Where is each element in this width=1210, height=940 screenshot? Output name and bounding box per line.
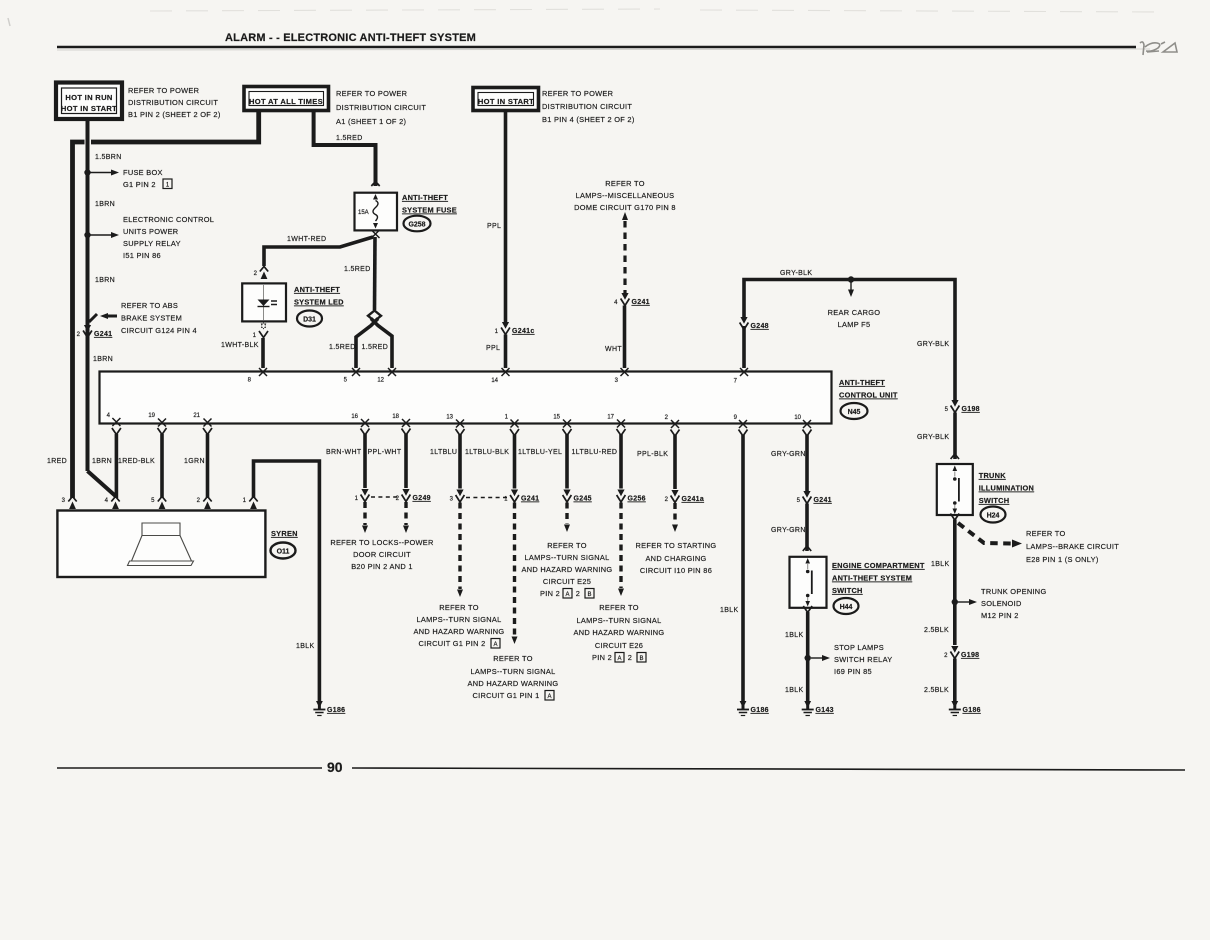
connector 2 G241a bbox=[665, 490, 704, 503]
wire 1BLK below engine switch bbox=[806, 612, 810, 701]
svg-text:WHT: WHT bbox=[605, 346, 622, 353]
svg-text:AND HAZARD WARNING: AND HAZARD WARNING bbox=[414, 627, 505, 636]
engine switch label bbox=[832, 561, 925, 614]
svg-text:G256: G256 bbox=[628, 496, 646, 503]
svg-text:HOT IN START: HOT IN START bbox=[61, 104, 117, 113]
refer to power distribution text 3 bbox=[542, 89, 635, 124]
wire 1BRN from box B1 down bbox=[86, 119, 90, 471]
trunk illumination switch H24 bbox=[937, 464, 973, 515]
wire BRN-WHT pin16 bbox=[363, 434, 367, 488]
svg-text:15: 15 bbox=[553, 415, 560, 421]
fuse box G1 pin2 text bbox=[123, 168, 172, 189]
svg-text:A1 (SHEET 1 OF 2): A1 (SHEET 1 OF 2) bbox=[336, 117, 406, 126]
anti-theft system LED D31 bbox=[242, 283, 286, 321]
svg-text:A: A bbox=[565, 592, 569, 598]
speaker symbol bbox=[128, 523, 194, 566]
svg-text:GRY-BLK: GRY-BLK bbox=[780, 270, 812, 277]
svg-text:17: 17 bbox=[607, 415, 614, 421]
electronic control units relay text bbox=[123, 215, 214, 260]
junction dot rear cargo tap bbox=[848, 276, 854, 297]
wire 2.5BLK to ground bbox=[953, 659, 957, 702]
connector 4 G241 on WHT bbox=[614, 293, 650, 306]
header rule bbox=[57, 46, 1136, 49]
svg-text:B: B bbox=[587, 592, 591, 598]
svg-text:M12 PIN 2: M12 PIN 2 bbox=[981, 611, 1019, 620]
svg-text:SYREN: SYREN bbox=[271, 529, 298, 538]
svg-text:STOP LAMPS: STOP LAMPS bbox=[834, 643, 884, 652]
control unit label bbox=[839, 378, 898, 419]
svg-text:REFER TO: REFER TO bbox=[599, 603, 639, 612]
svg-text:CIRCUIT E26: CIRCUIT E26 bbox=[595, 641, 643, 650]
svg-text:REFER TO STARTING: REFER TO STARTING bbox=[636, 541, 717, 550]
svg-text:G186: G186 bbox=[751, 707, 769, 714]
svg-text:1BRN: 1BRN bbox=[92, 458, 112, 465]
wire 1LTBLU-BLK pin1 bbox=[513, 435, 517, 489]
refer to turn signal E26 text bbox=[574, 603, 665, 662]
syren pin plugs bbox=[68, 497, 257, 510]
svg-text:REFER TO: REFER TO bbox=[493, 654, 533, 663]
dashed drop 1LTBLU-YEL with arrow bbox=[564, 503, 570, 533]
dashed drop 1LTBLU-RED with arrow bbox=[618, 503, 624, 597]
svg-text:SWITCH RELAY: SWITCH RELAY bbox=[834, 655, 893, 664]
bottom pin marks bbox=[112, 418, 811, 428]
connector G248 bbox=[740, 317, 769, 330]
svg-text:LAMPS--TURN SIGNAL: LAMPS--TURN SIGNAL bbox=[470, 667, 555, 676]
svg-text:REFER TO LOCKS--POWER: REFER TO LOCKS--POWER bbox=[330, 538, 433, 547]
engine switch top plug bbox=[803, 546, 811, 551]
anti-theft control unit N45 bbox=[100, 372, 832, 424]
svg-text:AND HAZARD WARNING: AND HAZARD WARNING bbox=[522, 565, 613, 574]
svg-text:G249: G249 bbox=[413, 495, 431, 502]
svg-text:DISTRIBUTION CIRCUIT: DISTRIBUTION CIRCUIT bbox=[128, 98, 218, 107]
svg-text:G241: G241 bbox=[814, 497, 832, 504]
junction dot trunk solenoid tap bbox=[952, 599, 977, 605]
svg-text:1RED-BLK: 1RED-BLK bbox=[118, 458, 155, 465]
svg-text:GRY-GRN: GRY-GRN bbox=[771, 451, 806, 458]
svg-text:1RED: 1RED bbox=[47, 458, 67, 465]
svg-text:BRAKE SYSTEM: BRAKE SYSTEM bbox=[121, 314, 182, 323]
connector 2 G249 bbox=[396, 489, 431, 502]
svg-text:G198: G198 bbox=[962, 406, 980, 413]
logo scribble top right bbox=[1140, 42, 1177, 55]
wire 1BLK below trunk switch bbox=[953, 520, 957, 646]
svg-text:1.5RED: 1.5RED bbox=[336, 135, 363, 142]
wire pin4 to syren bbox=[115, 434, 119, 498]
refer to ABS dashed tap bbox=[89, 313, 117, 322]
svg-text:LAMPS--TURN SIGNAL: LAMPS--TURN SIGNAL bbox=[576, 616, 661, 625]
svg-text:B20 PIN 2 AND 1: B20 PIN 2 AND 1 bbox=[351, 562, 413, 571]
dashed drop PPL-WHT with arrow bbox=[403, 502, 409, 533]
fuse top plug bbox=[371, 182, 379, 187]
svg-text:O11: O11 bbox=[277, 549, 290, 556]
svg-text:1.5RED: 1.5RED bbox=[329, 344, 356, 351]
svg-text:1BLK: 1BLK bbox=[785, 632, 804, 639]
svg-text:1BLK: 1BLK bbox=[720, 607, 739, 614]
svg-text:CIRCUIT E25: CIRCUIT E25 bbox=[543, 577, 591, 586]
svg-text:LAMPS--BRAKE CIRCUIT: LAMPS--BRAKE CIRCUIT bbox=[1026, 542, 1119, 551]
svg-text:GRY-BLK: GRY-BLK bbox=[917, 341, 949, 348]
LED pin 2 plug bbox=[254, 267, 269, 280]
refer to ABS text bbox=[121, 301, 197, 335]
svg-text:15A: 15A bbox=[358, 210, 369, 216]
wire PPL to pin 14 bbox=[504, 335, 508, 369]
connector 3 (pin13) bbox=[450, 490, 465, 503]
svg-text:1.5RED: 1.5RED bbox=[344, 266, 371, 273]
svg-text:AND HAZARD WARNING: AND HAZARD WARNING bbox=[468, 679, 559, 688]
hot-in-run/start power box B1 bbox=[56, 83, 122, 120]
svg-text:HOT IN RUN: HOT IN RUN bbox=[65, 93, 112, 102]
wire 1LTBLU-RED pin17 bbox=[619, 435, 623, 489]
rear cargo lamp text bbox=[828, 308, 881, 329]
svg-text:UNITS POWER: UNITS POWER bbox=[123, 227, 178, 236]
ground G186 trunk bbox=[949, 701, 981, 716]
wire PPL-BLK pin2 bbox=[673, 435, 677, 489]
svg-text:HOT AT ALL TIMES: HOT AT ALL TIMES bbox=[249, 97, 323, 106]
wire GRY-GRN pin10 bbox=[805, 435, 809, 491]
svg-text:PPL: PPL bbox=[487, 223, 501, 230]
refer to power distribution text 2 bbox=[336, 89, 426, 126]
svg-text:DOME CIRCUIT G170 PIN 8: DOME CIRCUIT G170 PIN 8 bbox=[574, 203, 676, 212]
svg-text:AND CHARGING: AND CHARGING bbox=[645, 554, 706, 563]
svg-text:1GRN: 1GRN bbox=[184, 458, 205, 465]
dashed brake circuit tap bbox=[958, 523, 1022, 548]
svg-text:REAR CARGO: REAR CARGO bbox=[828, 308, 881, 317]
dashed wire to dome circuit with up arrow bbox=[622, 212, 628, 293]
svg-text:REFER TO: REFER TO bbox=[439, 603, 479, 612]
bottom pin numbers bbox=[107, 413, 802, 421]
connector 5 G241 gry-grn bbox=[797, 491, 832, 504]
svg-text:BRN-WHT: BRN-WHT bbox=[326, 449, 362, 456]
dashed link 1-2 bbox=[371, 496, 399, 498]
svg-text:SOLENOID: SOLENOID bbox=[981, 599, 1022, 608]
svg-text:SYSTEM LED: SYSTEM LED bbox=[294, 298, 344, 307]
svg-text:21: 21 bbox=[193, 413, 200, 419]
wire labels above syren bbox=[47, 458, 205, 465]
svg-text:90: 90 bbox=[327, 759, 343, 775]
svg-text:2.5BLK: 2.5BLK bbox=[924, 627, 949, 634]
refer to brake circuit text bbox=[1026, 529, 1119, 564]
svg-text:HOT IN START: HOT IN START bbox=[478, 97, 534, 106]
svg-text:2: 2 bbox=[628, 653, 632, 662]
svg-text:1BLK: 1BLK bbox=[785, 687, 804, 694]
connector 2 G241 on 1BRN bbox=[77, 325, 113, 338]
svg-text:1BRN: 1BRN bbox=[95, 201, 115, 208]
svg-text:REFER TO POWER: REFER TO POWER bbox=[542, 89, 613, 98]
svg-text:D31: D31 bbox=[303, 317, 316, 324]
svg-text:G248: G248 bbox=[751, 323, 769, 330]
ground G186 syren bbox=[313, 701, 345, 716]
svg-text:A: A bbox=[547, 694, 551, 700]
top pin marks bbox=[259, 368, 748, 376]
syren box O11 bbox=[57, 511, 265, 578]
splice diamond bbox=[368, 311, 381, 322]
svg-text:SWITCH: SWITCH bbox=[979, 496, 1010, 505]
svg-text:18: 18 bbox=[392, 414, 399, 420]
connector G256 bbox=[617, 490, 646, 503]
svg-text:TRUNK: TRUNK bbox=[979, 471, 1007, 480]
dashed link 3-1 bbox=[466, 497, 507, 499]
ground G143 bbox=[802, 701, 834, 716]
svg-text:DOOR CIRCUIT: DOOR CIRCUIT bbox=[353, 550, 411, 559]
wire start chevrons below unit bbox=[112, 428, 812, 436]
svg-text:ELECTRONIC CONTROL: ELECTRONIC CONTROL bbox=[123, 215, 214, 224]
svg-text:REFER TO: REFER TO bbox=[605, 179, 645, 188]
svg-text:G245: G245 bbox=[574, 496, 592, 503]
svg-text:LAMPS--TURN SIGNAL: LAMPS--TURN SIGNAL bbox=[416, 615, 501, 624]
svg-text:1LTBLU-YEL: 1LTBLU-YEL bbox=[518, 449, 562, 456]
wire WHT to pin 3 bbox=[623, 306, 627, 369]
svg-text:19: 19 bbox=[148, 413, 155, 419]
wire labels row bbox=[326, 449, 806, 458]
svg-text:AND HAZARD WARNING: AND HAZARD WARNING bbox=[574, 628, 665, 637]
footer rule with page number 90 bbox=[57, 759, 1185, 775]
junction dot fuse box tap bbox=[84, 169, 119, 175]
connector 5 G198 bbox=[945, 400, 980, 413]
svg-text:1WHT-RED: 1WHT-RED bbox=[287, 236, 326, 243]
top pin numbers bbox=[248, 378, 738, 385]
dashed drop 1LTBLU with arrow bbox=[457, 503, 463, 598]
svg-text:1LTBLU-BLK: 1LTBLU-BLK bbox=[465, 449, 509, 456]
svg-text:PIN 2: PIN 2 bbox=[540, 589, 560, 598]
svg-text:FUSE BOX: FUSE BOX bbox=[123, 168, 163, 177]
svg-text:10: 10 bbox=[794, 415, 801, 421]
svg-text:13: 13 bbox=[446, 415, 453, 421]
wire syren1 elbow to 1BLK bbox=[254, 461, 320, 701]
wire 1WHT-RED bbox=[264, 237, 373, 266]
svg-text:G241: G241 bbox=[521, 496, 539, 503]
anti-theft system fuse F15 bbox=[355, 193, 398, 231]
refer to turn signal G1 pin1 text bbox=[468, 654, 559, 700]
svg-text:PPL: PPL bbox=[486, 345, 500, 352]
wire GRY-BLK from pin 7 up and across bbox=[744, 280, 955, 401]
svg-text:1.5RED: 1.5RED bbox=[362, 344, 389, 351]
svg-text:B: B bbox=[639, 656, 643, 662]
svg-text:G258: G258 bbox=[408, 222, 425, 229]
svg-text:ALARM - - ELECTRONIC ANTI-THEF: ALARM - - ELECTRONIC ANTI-THEFT SYSTEM bbox=[225, 32, 476, 44]
refer to power distribution text 1 bbox=[128, 86, 221, 119]
wire GRY-GRN to engine switch bbox=[805, 504, 809, 552]
svg-text:I69 PIN 85: I69 PIN 85 bbox=[834, 667, 872, 676]
svg-text:REFER TO ABS: REFER TO ABS bbox=[121, 301, 178, 310]
svg-text:CIRCUIT G124 PIN 4: CIRCUIT G124 PIN 4 bbox=[121, 326, 197, 335]
fuse label bbox=[402, 193, 457, 231]
svg-text:A: A bbox=[617, 656, 621, 662]
trunk switch label bbox=[979, 471, 1034, 523]
trunk switch bottom V bbox=[950, 514, 959, 521]
svg-text:PPL-BLK: PPL-BLK bbox=[637, 451, 668, 458]
svg-text:CIRCUIT G1 PIN 1: CIRCUIT G1 PIN 1 bbox=[472, 691, 539, 700]
svg-text:REFER TO: REFER TO bbox=[547, 541, 587, 550]
svg-text:CONTROL UNIT: CONTROL UNIT bbox=[839, 391, 898, 400]
connector 1 G241 bbox=[504, 490, 539, 503]
wire 1BLK pin9 long bbox=[741, 435, 745, 701]
svg-text:1BLK: 1BLK bbox=[296, 643, 315, 650]
svg-text:ANTI-THEFT SYSTEM: ANTI-THEFT SYSTEM bbox=[832, 574, 912, 583]
dashed drop 1LTBLU-BLK with arrow bbox=[512, 503, 518, 645]
svg-text:H24: H24 bbox=[987, 513, 1000, 520]
wire pin21 to syren2 bbox=[206, 434, 210, 498]
stop lamps relay text bbox=[834, 643, 893, 676]
svg-text:G198: G198 bbox=[961, 652, 979, 659]
svg-text:1WHT-BLK: 1WHT-BLK bbox=[221, 342, 259, 349]
svg-text:1LTBLU-RED: 1LTBLU-RED bbox=[572, 449, 618, 456]
svg-text:LAMP F5: LAMP F5 bbox=[838, 320, 871, 329]
syren pin numbers bbox=[62, 498, 247, 504]
svg-text:DISTRIBUTION CIRCUIT: DISTRIBUTION CIRCUIT bbox=[542, 102, 632, 111]
svg-text:14: 14 bbox=[491, 378, 498, 384]
dashed drop PPL-BLK with arrow bbox=[672, 503, 678, 532]
wire bus corner left bbox=[73, 110, 259, 498]
svg-text:ANTI-THEFT: ANTI-THEFT bbox=[294, 285, 340, 294]
svg-text:TRUNK OPENING: TRUNK OPENING bbox=[981, 587, 1047, 596]
svg-text:ANTI-THEFT: ANTI-THEFT bbox=[839, 378, 885, 387]
svg-text:GRY-GRN: GRY-GRN bbox=[771, 527, 806, 534]
svg-text:CIRCUIT G1 PIN 2: CIRCUIT G1 PIN 2 bbox=[418, 639, 485, 648]
svg-text:16: 16 bbox=[351, 414, 358, 420]
svg-text:2: 2 bbox=[576, 589, 580, 598]
ground G186 pin9 bbox=[737, 701, 769, 716]
wire 1.5RED fuse to diamond bbox=[373, 237, 377, 310]
fuse bottom X mark bbox=[372, 230, 380, 238]
svg-text:G241: G241 bbox=[94, 331, 112, 338]
labels 1.5RED pair bbox=[329, 344, 388, 351]
wire GRY-BLK to trunk switch bbox=[953, 413, 957, 460]
svg-text:H44: H44 bbox=[840, 604, 853, 611]
svg-text:A: A bbox=[493, 642, 497, 648]
svg-text:G1 PIN 2: G1 PIN 2 bbox=[123, 180, 156, 189]
wire 1LTBLU-YEL pin15 bbox=[565, 435, 569, 489]
svg-text:G143: G143 bbox=[816, 707, 834, 714]
svg-text:SWITCH: SWITCH bbox=[832, 586, 863, 595]
svg-text:2.5BLK: 2.5BLK bbox=[924, 687, 949, 694]
junction dot ECU relay tap bbox=[84, 232, 119, 238]
svg-text:ANTI-THEFT: ANTI-THEFT bbox=[402, 193, 448, 202]
svg-text:1BLK: 1BLK bbox=[931, 561, 950, 568]
svg-text:E28 PIN 1 (S ONLY): E28 PIN 1 (S ONLY) bbox=[1026, 555, 1099, 564]
wire 1WHT-BLK to pin 8 bbox=[261, 338, 265, 368]
svg-text:SYSTEM FUSE: SYSTEM FUSE bbox=[402, 206, 457, 215]
refer to turn signal G1 pin2 text bbox=[414, 603, 505, 648]
svg-text:I51 PIN 86: I51 PIN 86 bbox=[123, 251, 161, 260]
svg-text:G241c: G241c bbox=[512, 328, 535, 335]
svg-text:G241a: G241a bbox=[682, 496, 705, 503]
svg-text:CIRCUIT I10 PIN 86: CIRCUIT I10 PIN 86 bbox=[640, 566, 712, 575]
svg-text:DISTRIBUTION CIRCUIT: DISTRIBUTION CIRCUIT bbox=[336, 103, 426, 112]
connector 1 G241c on PPL bbox=[495, 322, 535, 335]
svg-text:G186: G186 bbox=[327, 707, 345, 714]
svg-text:1BRN: 1BRN bbox=[95, 277, 115, 284]
refer to locks text bbox=[330, 538, 433, 571]
svg-text:B1 PIN 4 (SHEET 2 OF 2): B1 PIN 4 (SHEET 2 OF 2) bbox=[542, 115, 635, 124]
LED pin 1 connector bbox=[253, 322, 268, 339]
svg-text:REFER TO: REFER TO bbox=[1026, 529, 1066, 538]
trunk switch top plug bbox=[951, 454, 959, 459]
syren label bbox=[271, 529, 298, 559]
svg-text:ILLUMINATION: ILLUMINATION bbox=[979, 484, 1034, 493]
svg-text:1.5BRN: 1.5BRN bbox=[95, 154, 122, 161]
junction dot stop lamps tap bbox=[805, 655, 831, 661]
svg-text:PIN 2: PIN 2 bbox=[592, 653, 612, 662]
svg-text:B1 PIN 2 (SHEET 2 OF 2): B1 PIN 2 (SHEET 2 OF 2) bbox=[128, 110, 221, 119]
svg-text:SUPPLY RELAY: SUPPLY RELAY bbox=[123, 239, 181, 248]
svg-text:G186: G186 bbox=[963, 707, 981, 714]
svg-text:1LTBLU: 1LTBLU bbox=[430, 449, 457, 456]
svg-text:1BRN: 1BRN bbox=[93, 356, 113, 363]
svg-text:N45: N45 bbox=[848, 409, 861, 416]
refer to starting charging text bbox=[636, 541, 717, 575]
LED label bbox=[294, 285, 344, 327]
engine switch bottom V bbox=[803, 606, 812, 613]
svg-text:LAMPS--TURN SIGNAL: LAMPS--TURN SIGNAL bbox=[524, 553, 609, 562]
wire PPL from hot-in-start bbox=[504, 110, 508, 322]
svg-text:REFER TO POWER: REFER TO POWER bbox=[128, 86, 199, 95]
splice branches crossing bbox=[356, 319, 392, 369]
hot-at-all-times power box A1 bbox=[244, 87, 329, 111]
svg-text:ENGINE COMPARTMENT: ENGINE COMPARTMENT bbox=[832, 561, 925, 570]
connector 2 G198 bbox=[944, 646, 979, 659]
wire 1LTBLU pin13 bbox=[458, 435, 462, 489]
svg-text:GRY-BLK: GRY-BLK bbox=[917, 434, 949, 441]
trunk opening solenoid text bbox=[981, 587, 1047, 620]
hot-in-start power box B1 pin4 bbox=[473, 88, 539, 111]
connector 1 (pin16) bbox=[355, 489, 370, 502]
svg-text:PPL-WHT: PPL-WHT bbox=[368, 449, 402, 456]
svg-text:G241: G241 bbox=[632, 299, 650, 306]
svg-text:LAMPS--MISCELLANEOUS: LAMPS--MISCELLANEOUS bbox=[576, 191, 675, 200]
wire pin19 to syren5 bbox=[160, 434, 164, 498]
svg-text:REFER TO POWER: REFER TO POWER bbox=[336, 89, 407, 98]
refer to dome text bbox=[574, 179, 676, 212]
connector G245 bbox=[563, 490, 592, 503]
svg-text:12: 12 bbox=[377, 378, 384, 384]
wire 1BRN diagonal into syren pin 4 bbox=[88, 471, 116, 496]
dashed drop BRN-WHT with arrow bbox=[362, 502, 368, 533]
engine compartment anti-theft switch H44 bbox=[790, 557, 827, 608]
refer to turn signal E25 text bbox=[522, 541, 613, 598]
wire PPL-WHT pin18 bbox=[404, 434, 408, 488]
wire box A1 right lead 1.5RED bbox=[314, 110, 376, 186]
